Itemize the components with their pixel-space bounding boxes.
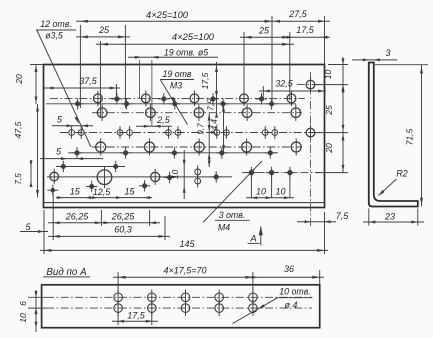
dim 32,5 xyxy=(259,79,326,101)
dim 26,25 b xyxy=(104,210,157,226)
svg-text:9,7: 9,7 xyxy=(197,123,206,135)
svg-text:25: 25 xyxy=(98,25,110,35)
dim 15 b xyxy=(98,187,152,200)
dim 7,5 vert xyxy=(207,99,219,118)
dim 47,5 left xyxy=(13,104,39,198)
holes vertical pair o3.5 xyxy=(195,165,201,187)
dots row A2 M3 xyxy=(111,93,267,105)
ext line col 272 xyxy=(271,16,273,106)
dim 2,5 xyxy=(136,60,172,128)
holes row A o5 xyxy=(94,91,296,107)
dim 7,5 left xyxy=(14,160,33,187)
dim 71,5 xyxy=(375,65,428,207)
dim 6 bottom view xyxy=(18,290,46,332)
svg-text:36: 36 xyxy=(284,264,294,274)
center line col 311 xyxy=(310,72,312,228)
svg-text:25: 25 xyxy=(324,105,334,116)
dim 9,7 vert xyxy=(197,113,211,167)
dim 17,5 bottom view xyxy=(112,302,158,325)
note R2 leader xyxy=(378,169,408,197)
dots M4 row xyxy=(246,167,296,179)
svg-text:15: 15 xyxy=(70,187,81,197)
dim 26,25 a xyxy=(48,193,160,240)
svg-text:24,4: 24,4 xyxy=(210,119,219,136)
dim 4x25=100 second xyxy=(96,32,294,46)
svg-text:27,5: 27,5 xyxy=(288,9,308,19)
svg-text:37,5: 37,5 xyxy=(79,76,98,86)
holes row G o5 xyxy=(96,139,302,156)
ext line col 290 xyxy=(289,32,291,100)
svg-text:R2: R2 xyxy=(396,169,408,179)
ext line col 216 dim xyxy=(216,62,218,116)
dots row B M3 xyxy=(72,98,278,110)
dim 15 a xyxy=(56,187,98,200)
svg-text:32,5: 32,5 xyxy=(275,79,294,89)
svg-text:23: 23 xyxy=(384,211,395,221)
svg-text:71,5: 71,5 xyxy=(405,128,415,145)
svg-text:145: 145 xyxy=(179,239,195,249)
row center line A xyxy=(50,97,305,99)
svg-text:2,5: 2,5 xyxy=(156,115,171,125)
view arrow A xyxy=(248,226,263,245)
dim 17,5 vert xyxy=(200,66,218,98)
row center line G xyxy=(92,146,302,148)
svg-text:6: 6 xyxy=(18,301,28,306)
dim 7,5 bottom right xyxy=(297,211,349,223)
dim 20 right side xyxy=(315,133,348,173)
row line B xyxy=(46,103,296,105)
dot P M3 xyxy=(47,185,58,196)
svg-text:15: 15 xyxy=(124,187,135,197)
svg-text:10: 10 xyxy=(256,187,266,197)
note 10 otv o4 xyxy=(232,287,312,324)
dim 60,3 xyxy=(48,216,170,240)
svg-text:4×25=100: 4×25=100 xyxy=(146,10,189,20)
bottom view row line 2 xyxy=(46,307,312,309)
hole E o5 xyxy=(306,77,315,93)
row line I xyxy=(56,166,125,168)
row center line C xyxy=(92,112,302,114)
dim 25 right side xyxy=(315,85,348,133)
dim 145 xyxy=(40,212,328,254)
svg-text:17,5: 17,5 xyxy=(200,72,210,89)
svg-text:3: 3 xyxy=(385,48,390,58)
svg-text:М3: М3 xyxy=(170,81,182,91)
side view L profile outline xyxy=(369,63,418,207)
dim 12,5 xyxy=(92,187,111,199)
svg-text:12 отв.: 12 отв. xyxy=(40,19,72,29)
svg-text:10 отв.: 10 отв. xyxy=(279,287,311,297)
hole J o5 xyxy=(50,169,59,185)
dots row M M3 xyxy=(164,171,222,183)
row line JKL xyxy=(47,176,232,178)
svg-text:7,5: 7,5 xyxy=(207,99,216,111)
svg-text:ø 4: ø 4 xyxy=(285,300,298,310)
dim 27,5 xyxy=(274,9,325,23)
dim 3 side view xyxy=(352,48,397,61)
hole K large xyxy=(97,166,112,188)
dim 23 xyxy=(363,209,424,226)
dim 25 left xyxy=(76,25,130,38)
svg-text:3 отв.: 3 отв. xyxy=(219,210,246,220)
row center line E xyxy=(297,84,323,86)
svg-text:26,25: 26,25 xyxy=(65,212,90,222)
svg-text:10: 10 xyxy=(170,170,180,180)
svg-text:25: 25 xyxy=(258,26,270,36)
ext line col 125 xyxy=(124,25,126,108)
svg-text:19 отв: 19 отв xyxy=(162,69,191,79)
note 12 otv o3,5 leader xyxy=(36,19,91,147)
svg-text:4×25=100: 4×25=100 xyxy=(172,32,215,42)
dim 37,5 xyxy=(44,76,120,98)
svg-text:60,3: 60,3 xyxy=(114,225,132,235)
dim 25 right xyxy=(240,26,294,39)
ext line right edge top xyxy=(324,16,326,65)
svg-text:7,5: 7,5 xyxy=(14,173,23,185)
dots row O M3 xyxy=(86,180,150,192)
main view plate outline xyxy=(44,65,325,208)
svg-text:ø3,5: ø3,5 xyxy=(45,31,63,41)
hole L o5 xyxy=(151,169,160,185)
bottom view holes row 2 xyxy=(114,300,257,316)
svg-text:47,5: 47,5 xyxy=(13,121,23,138)
note 3 otv M4 xyxy=(203,161,262,233)
svg-text:20: 20 xyxy=(324,143,334,154)
dim 10 mid vert xyxy=(170,150,186,199)
dim 10 right xyxy=(315,57,348,92)
hole F o5 xyxy=(306,125,315,141)
dots row I M3 xyxy=(58,161,122,173)
ext line col 244 xyxy=(243,32,245,100)
dim 17,5 top right xyxy=(287,25,331,39)
dim 5 bottom left xyxy=(20,210,48,254)
dim 10 10 M4 xyxy=(246,174,294,199)
row center line M4 xyxy=(242,172,320,174)
row line H xyxy=(68,152,278,154)
svg-text:10: 10 xyxy=(275,187,285,197)
svg-text:7,5: 7,5 xyxy=(336,211,350,221)
dim 4x17,5=70 xyxy=(113,266,258,293)
ext line col 80 xyxy=(79,25,81,108)
svg-text:А: А xyxy=(249,233,256,244)
dim 36 xyxy=(252,264,325,285)
svg-text:10: 10 xyxy=(18,313,28,323)
note 19 otv M3 leader xyxy=(160,69,194,125)
dim 5 lower xyxy=(40,147,103,161)
holes row D o3.5 pairs xyxy=(69,126,278,139)
svg-text:26,25: 26,25 xyxy=(111,212,136,222)
ext line col 100 xyxy=(99,41,101,117)
svg-text:19 отв. ø5: 19 отв. ø5 xyxy=(164,47,208,57)
dim 5 pair xyxy=(52,115,93,128)
svg-text:М4: М4 xyxy=(218,223,230,233)
bottom view outline xyxy=(42,285,320,328)
svg-text:17,5: 17,5 xyxy=(296,25,315,35)
bottom view holes row 1 xyxy=(114,290,257,306)
row center line D xyxy=(60,132,320,134)
svg-text:20: 20 xyxy=(14,74,24,85)
svg-text:10: 10 xyxy=(323,70,333,80)
svg-text:4×17,5=70: 4×17,5=70 xyxy=(163,266,206,276)
dots row H M3 xyxy=(71,147,276,159)
holes row C o5 xyxy=(97,104,300,121)
dim 4x25=100 top xyxy=(76,10,330,23)
svg-text:17,5: 17,5 xyxy=(127,311,146,321)
dim 20 left xyxy=(14,65,43,105)
dim 10 bottom view xyxy=(18,308,38,328)
note 19 otv o5 xyxy=(128,47,218,98)
svg-text:12,5: 12,5 xyxy=(93,187,112,197)
bottom view row line 1 xyxy=(46,296,312,298)
view label Vid po A xyxy=(43,267,90,278)
dim 24,4 vert xyxy=(210,104,225,153)
